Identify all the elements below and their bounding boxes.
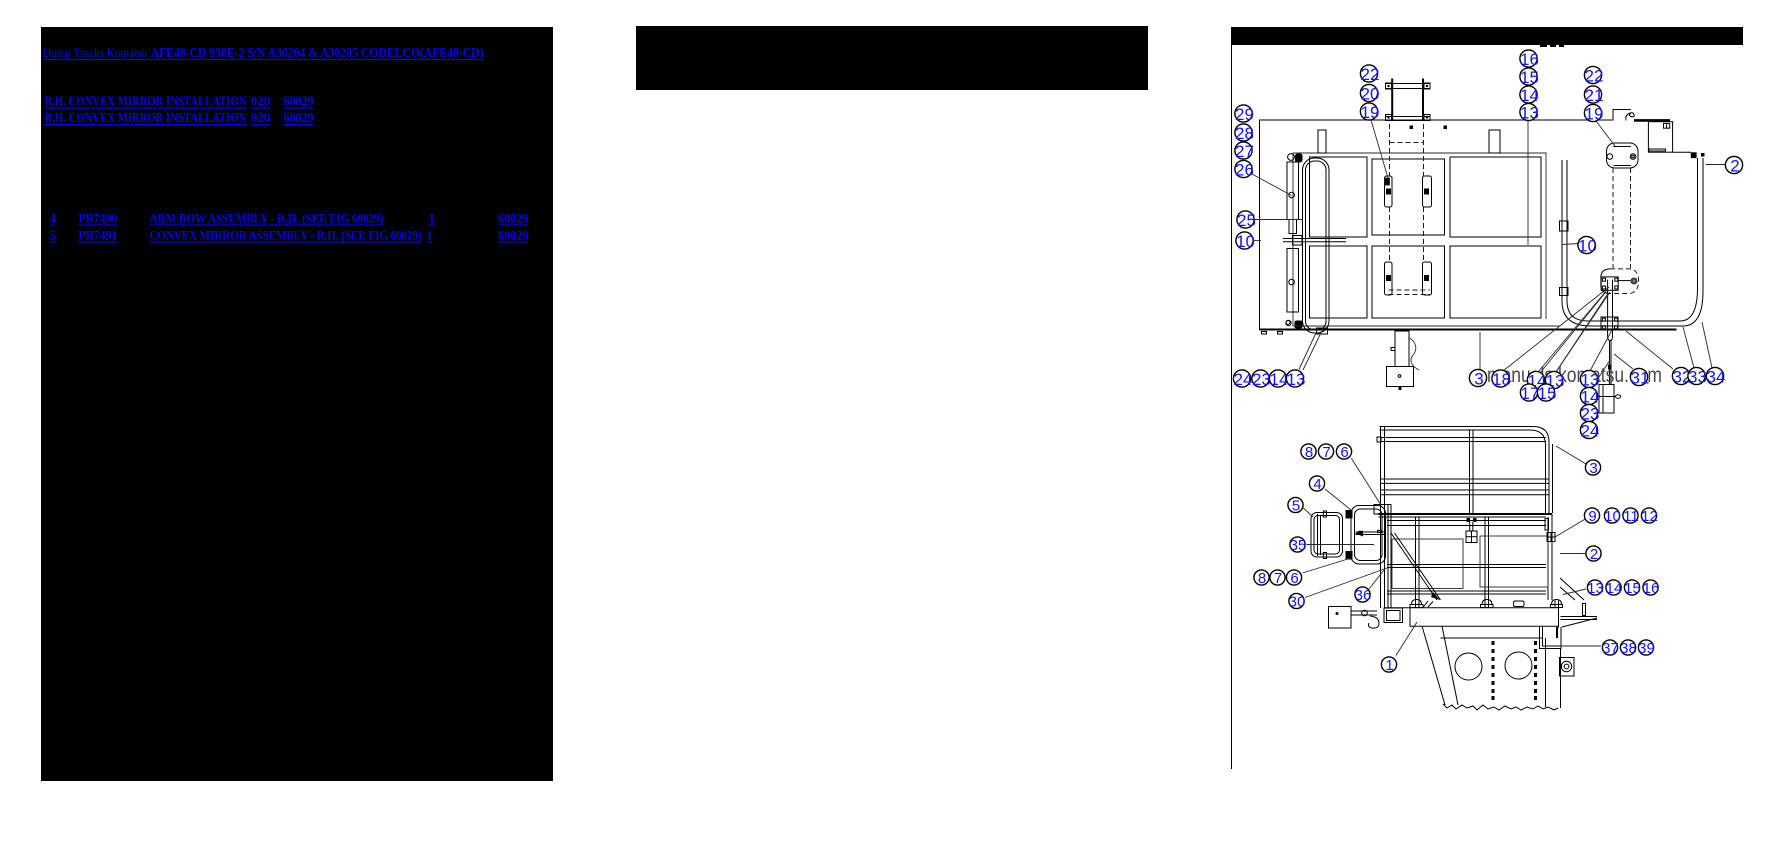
small bolts on deck top — [1410, 126, 1414, 130]
flanges — [1385, 176, 1393, 207]
svg-text:15: 15 — [1538, 384, 1557, 403]
svg-text:13: 13 — [1587, 580, 1604, 597]
svg-text:R.H. CONVEX MIRROR INSTALLATIO: R.H. CONVEX MIRROR INSTALLATION — [45, 95, 247, 110]
svg-text:15: 15 — [1624, 580, 1641, 597]
svg-text:33: 33 — [1688, 368, 1707, 387]
svg-text:27: 27 — [1235, 142, 1254, 161]
svg-text:22: 22 — [1361, 65, 1380, 84]
svg-text:30: 30 — [1289, 594, 1306, 611]
svg-text:13: 13 — [1287, 370, 1306, 389]
clipped watermark marks under bar — [1540, 43, 1547, 47]
svg-text:24: 24 — [1581, 422, 1600, 441]
mirror arm upper view — [1607, 143, 1639, 168]
step assembly — [1329, 607, 1352, 629]
svg-text:CONVEX MIRROR ASSEMBLY - R.H.: CONVEX MIRROR ASSEMBLY - R.H. (SEE FIG 6… — [150, 229, 422, 243]
left handrail — [1303, 158, 1330, 333]
svg-text:1: 1 — [427, 229, 433, 243]
L bracket — [1540, 626, 1562, 649]
right frame top black bar — [1231, 27, 1743, 45]
svg-text:15: 15 — [1520, 68, 1539, 87]
svg-text:31: 31 — [1631, 369, 1650, 388]
upper rail panel — [1380, 427, 1550, 514]
right frame left border — [1231, 45, 1233, 769]
top tabs — [1318, 130, 1326, 153]
svg-text:6: 6 — [1290, 570, 1298, 587]
svg-text:2: 2 — [1590, 546, 1598, 563]
feet — [1412, 600, 1422, 605]
dashed ladder chute — [1389, 124, 1391, 176]
svg-text:10: 10 — [1604, 508, 1621, 525]
svg-text:18: 18 — [1492, 370, 1511, 389]
svg-text:26: 26 — [1235, 161, 1254, 180]
right gussets — [1560, 578, 1584, 600]
ladder bracket above deck — [1391, 79, 1393, 122]
svg-text:8: 8 — [1305, 444, 1313, 461]
svg-text:3: 3 — [1474, 370, 1483, 389]
svg-text:AFE48-CD 930E-2 S/N A30204 & A: AFE48-CD 930E-2 S/N A30204 & A30205 CODE… — [151, 45, 484, 60]
svg-text:60029: 60029 — [498, 212, 528, 226]
svg-text:25: 25 — [1237, 211, 1256, 230]
svg-text:10: 10 — [1236, 232, 1255, 251]
svg-text:23: 23 — [1252, 370, 1271, 389]
svg-text:7: 7 — [1322, 444, 1330, 461]
svg-text:38: 38 — [1620, 640, 1637, 657]
left black panel — [41, 27, 553, 781]
mirror head + bracket — [1311, 513, 1343, 558]
panels grid — [1310, 157, 1368, 237]
svg-text:PB7491: PB7491 — [78, 229, 117, 243]
svg-text:7: 7 — [1274, 570, 1282, 587]
right handrail — [1697, 158, 1699, 288]
svg-text:21: 21 — [1585, 86, 1604, 105]
svg-text:3: 3 — [1589, 460, 1597, 477]
svg-text:9: 9 — [1588, 508, 1596, 525]
cage — [1379, 513, 1553, 515]
svg-text:35: 35 — [1290, 537, 1307, 554]
svg-text:Dump Trucks Komatsu: Dump Trucks Komatsu — [43, 45, 147, 60]
svg-text:2: 2 — [1730, 157, 1739, 176]
svg-text:12: 12 — [1641, 508, 1658, 525]
svg-text:29: 29 — [1235, 105, 1254, 124]
svg-text:1: 1 — [1385, 657, 1393, 674]
left plates — [1287, 162, 1299, 220]
svg-text:4: 4 — [50, 212, 57, 226]
svg-text:020: 020 — [251, 95, 270, 110]
mid bolt — [1467, 518, 1471, 522]
svg-text:37: 37 — [1602, 640, 1619, 657]
deck beam — [1384, 607, 1559, 609]
diagonal brace — [1391, 533, 1437, 600]
svg-text:4: 4 — [1313, 476, 1321, 493]
svg-text:13: 13 — [1520, 104, 1539, 123]
svg-text:PB7490: PB7490 — [78, 212, 117, 226]
svg-text:19: 19 — [1585, 105, 1604, 124]
top middle black bar — [636, 26, 1148, 90]
svg-text:5: 5 — [1292, 498, 1300, 515]
svg-text:60029: 60029 — [498, 229, 528, 243]
inner rect — [1293, 153, 1546, 326]
svg-text:60029: 60029 — [284, 111, 314, 126]
svg-text:R.H. CONVEX MIRROR INSTALLATIO: R.H. CONVEX MIRROR INSTALLATION — [45, 111, 247, 126]
deck outline — [1260, 110, 1632, 331]
svg-text:6: 6 — [1340, 444, 1348, 461]
svg-text:24: 24 — [1234, 370, 1253, 389]
svg-text:28: 28 — [1235, 124, 1254, 143]
svg-text:16: 16 — [1520, 50, 1539, 69]
lower drawing leaders — [1556, 446, 1586, 464]
truck body — [1441, 637, 1543, 639]
right bracket — [1545, 519, 1549, 531]
svg-text:34: 34 — [1707, 368, 1726, 387]
svg-text:11: 11 — [1623, 508, 1639, 525]
svg-text:020: 020 — [251, 111, 270, 126]
svg-text:39: 39 — [1638, 640, 1655, 657]
pedestal below deck — [1395, 331, 1409, 367]
svg-text:16: 16 — [1643, 580, 1660, 597]
svg-text:60029: 60029 — [284, 95, 314, 110]
svg-text:8: 8 — [1258, 570, 1266, 587]
svg-text:14: 14 — [1606, 580, 1623, 597]
svg-text:10: 10 — [1578, 237, 1597, 256]
svg-text:36: 36 — [1355, 587, 1372, 604]
svg-text:14: 14 — [1520, 86, 1539, 105]
svg-text:1: 1 — [429, 212, 435, 226]
svg-text:20: 20 — [1361, 85, 1380, 104]
svg-text:ARM BOW ASSEMBLY - R.H. (SEE F: ARM BOW ASSEMBLY - R.H. (SEE FIG 60029) — [150, 212, 384, 226]
hub square — [1560, 658, 1575, 677]
svg-text:19: 19 — [1361, 103, 1380, 122]
svg-text:5: 5 — [50, 229, 56, 243]
svg-text:22: 22 — [1585, 67, 1604, 86]
